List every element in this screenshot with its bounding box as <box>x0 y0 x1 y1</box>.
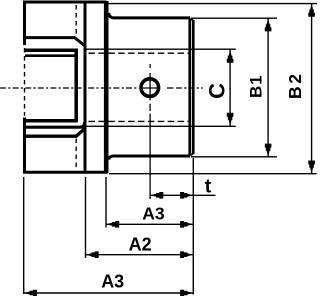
svg-text:C: C <box>205 83 230 99</box>
svg-text:A3: A3 <box>142 203 165 223</box>
svg-text:B2: B2 <box>285 71 305 99</box>
svg-text:A2: A2 <box>129 235 152 255</box>
svg-text:B1: B1 <box>247 75 266 98</box>
svg-text:t: t <box>205 175 212 197</box>
svg-text:A3: A3 <box>101 272 124 292</box>
